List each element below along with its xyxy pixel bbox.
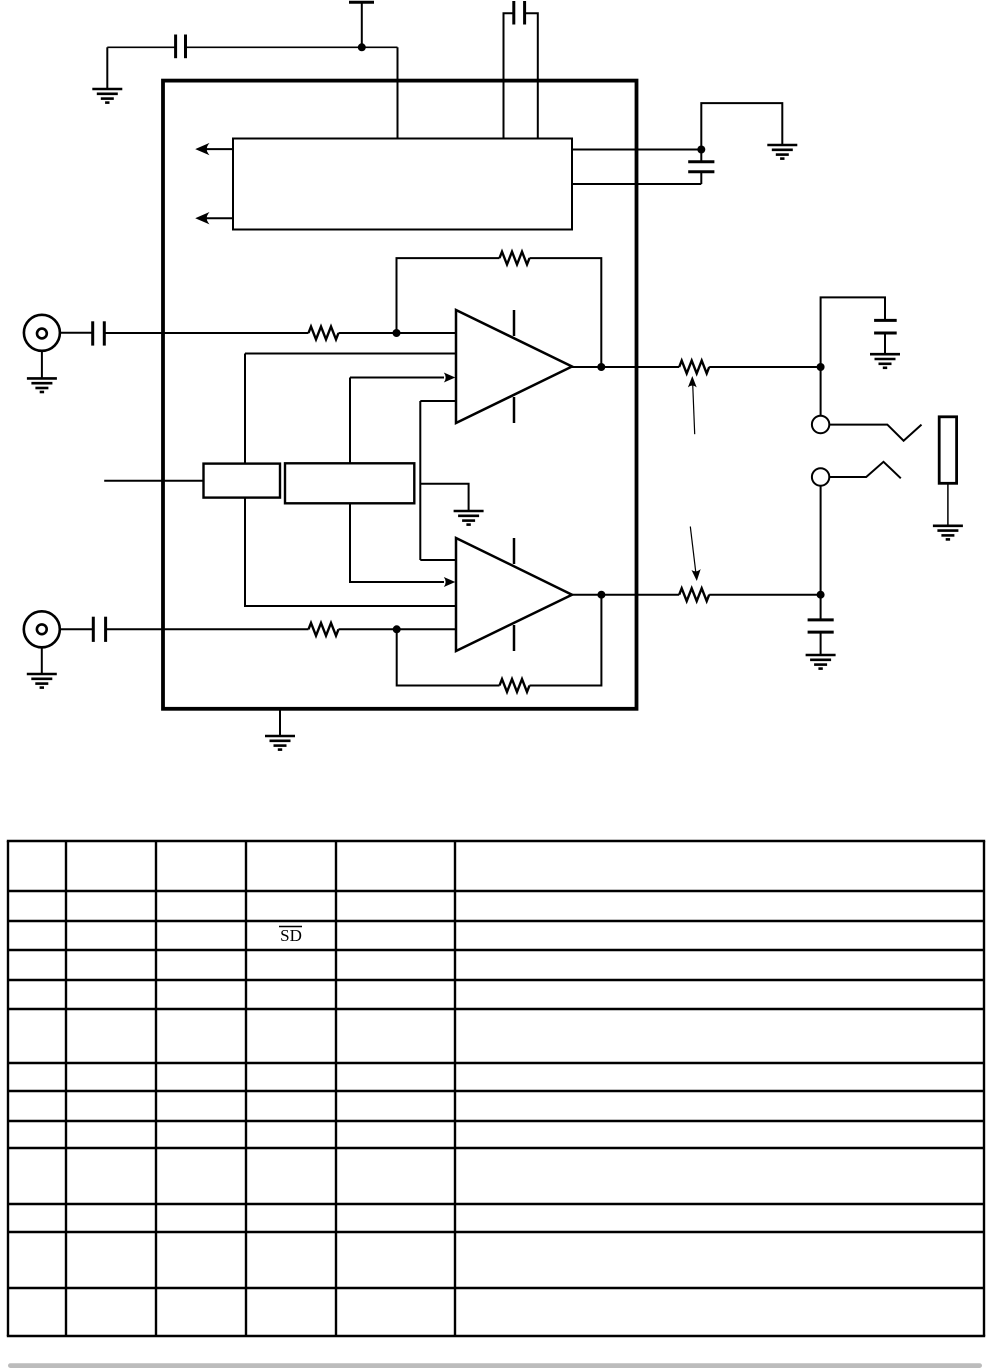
RCA jack J1 (left input upper) (24, 315, 60, 351)
SD cell text (279, 926, 302, 945)
annotation arrow 2 (690, 527, 700, 582)
node amp1 output (597, 363, 605, 371)
jack sleeve (939, 417, 956, 484)
node pump cap junction (697, 146, 705, 154)
wire jack ring to lower node (820, 486, 822, 595)
ground (pump cap) (767, 145, 797, 159)
wire bypass to ground (106, 47, 108, 89)
capacitor C4 (output lower) (808, 595, 834, 655)
charge pump block (233, 139, 572, 230)
op-amp A2 (456, 538, 572, 651)
capacitor C2 (pump output cap) (688, 150, 714, 185)
wire amp1 input 3 (arrow) (350, 373, 455, 383)
annotation arrow 1 (688, 376, 697, 434)
wire charge pump output arrow 1 (197, 144, 234, 154)
wire amp1 output (572, 366, 679, 368)
node supply junction (358, 43, 366, 51)
wire input upper to amp (339, 332, 457, 334)
wire feedback lower left (397, 629, 500, 685)
capacitor C1 (flying cap) (514, 1, 525, 25)
wire input upper (104, 332, 308, 334)
wire charge pump output arrow 2 (197, 213, 234, 223)
node amp2 output (597, 591, 605, 599)
wire input lower (106, 628, 309, 630)
wire feedback upper left (397, 258, 500, 333)
wire flying cap left leg (504, 13, 514, 139)
RCA jack J2 (left input lower) (24, 611, 60, 647)
ground (bypass cap) (92, 89, 122, 103)
node amp2 inverting input (393, 625, 401, 633)
ground (C4) (806, 655, 836, 669)
ground (chip) (265, 736, 295, 750)
wire bias rail (419, 401, 421, 560)
SD input wire (104, 480, 203, 482)
node output upper (817, 363, 825, 371)
wire bias to amp2 (420, 559, 456, 561)
ground (J2) (41, 647, 43, 674)
op-amp A1 (456, 310, 572, 423)
node amp1 inverting input (393, 329, 401, 337)
wire amp1 input 2 (245, 353, 456, 355)
jack tip contact T1 (812, 416, 922, 441)
wire supply rail right (186, 46, 398, 48)
wire block2 to amp2 (arrow) (350, 503, 455, 587)
resistor Rf2 (feedback lower) (500, 679, 530, 692)
wire chip ground (279, 709, 281, 736)
wire pump node to ground (701, 103, 782, 149)
control block 1 (204, 464, 281, 498)
wire bias ground tap (420, 484, 468, 511)
wire supply rail (107, 46, 175, 48)
wire J2 to cap (60, 628, 94, 630)
ground (sleeve) (933, 526, 963, 540)
supply terminal VDD (349, 2, 374, 47)
wire amp2 output (572, 594, 679, 596)
resistor Ro1 (output upper) (679, 361, 709, 374)
wire feedback lower right (530, 595, 602, 686)
node output lower (817, 591, 825, 599)
capacitor Ci2 (input coupling lower) (93, 617, 105, 642)
control block 2 (285, 463, 414, 503)
ground (C3) (870, 354, 900, 368)
wire amp1 input 4 (bias) (420, 400, 456, 402)
wire feedback upper right (530, 258, 602, 367)
wire charge pump out line 2 (572, 183, 701, 185)
resistor Ri1 (input upper) (309, 327, 339, 340)
resistor Ri2 (input lower) (309, 623, 339, 636)
footer bar (8, 1363, 982, 1368)
wire charge pump out line 1 (572, 149, 701, 151)
wire supply into chip (397, 47, 399, 139)
jack ring contact T2 (812, 462, 901, 486)
wire output lower to node (709, 594, 820, 596)
ground (J1) (41, 351, 43, 379)
wire block2 to amp1 (349, 378, 351, 464)
wire node to jack tip (820, 367, 822, 416)
wire sleeve to ground (947, 483, 949, 526)
capacitor C3 (output upper) (874, 320, 897, 354)
svg-text:SD: SD (280, 926, 302, 945)
IC U1 outline (163, 81, 637, 709)
resistor Rf1 (feedback upper) (500, 252, 530, 265)
wire block1 to amp2 (245, 498, 456, 606)
wire J1 to cap (60, 332, 93, 334)
capacitor CS (supply bypass) (176, 35, 186, 59)
wire output upper to node (709, 366, 820, 368)
ground (bias) (454, 511, 484, 525)
wire flying cap right leg (525, 13, 538, 139)
capacitor Ci1 (input coupling upper) (93, 321, 105, 345)
resistor Ro2 (output lower) (679, 588, 709, 601)
wire input lower to amp (339, 628, 457, 630)
wire output upper to cap (821, 297, 885, 367)
wire block1 to amp1 (244, 354, 246, 464)
pin table grid (7, 841, 985, 1336)
